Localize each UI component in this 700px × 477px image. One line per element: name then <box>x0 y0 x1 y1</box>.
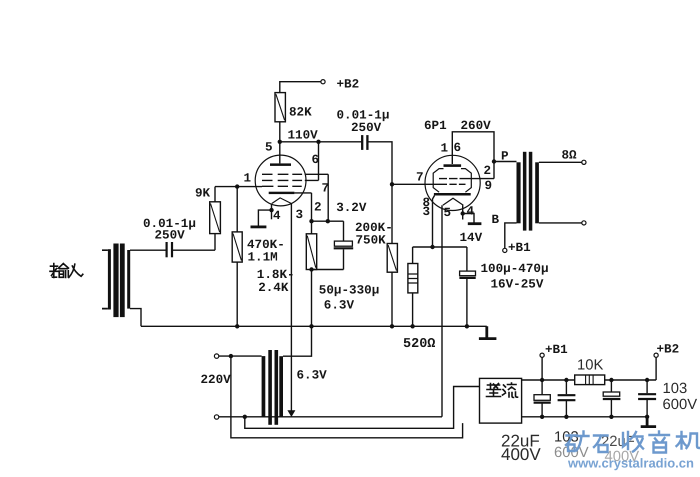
output transformer T2 <box>517 152 539 231</box>
resistor 520 ohm <box>408 247 418 326</box>
capacitor 22uF 400V first <box>534 380 551 417</box>
junction 1.8K bottom <box>309 267 313 271</box>
node dot mains top <box>229 354 233 358</box>
wire 220V top to primary <box>219 355 262 357</box>
wire secondary top to 8 ohm terminal <box>539 161 582 163</box>
svg-text:50μ-330μ: 50μ-330μ <box>319 283 379 297</box>
wire V2 cathode network <box>413 246 467 248</box>
tube V1 envelope <box>255 155 306 206</box>
svg-text:8Ω: 8Ω <box>562 149 578 163</box>
svg-text:5: 5 <box>444 206 452 220</box>
wire P to output transformer primary <box>494 161 517 163</box>
junction dots ground rail <box>540 415 649 419</box>
wire 110V node to coupling cap <box>280 141 362 143</box>
tube V2 anode plate <box>444 164 462 167</box>
wire pin 6 to 110V node <box>318 142 320 181</box>
wire cathode node to bypass cap <box>312 220 344 222</box>
tube V2 grid row 1 <box>439 178 494 180</box>
node dot pin7 junction <box>326 219 330 223</box>
node dot grid V1 <box>235 184 239 188</box>
wire cathode to pin3 line <box>294 192 311 194</box>
svg-text:+B1: +B1 <box>545 343 568 357</box>
pin 4 lead and ground V2 <box>461 205 482 224</box>
svg-text:5: 5 <box>265 141 273 155</box>
wire +B1 to rail <box>541 357 543 380</box>
rectifier box 整流 <box>480 378 522 423</box>
resistor 9K <box>210 187 221 251</box>
junction 100u cap to bus <box>465 324 469 328</box>
wire bus to 6.3V winding top <box>283 326 312 356</box>
wire secondary bottom <box>539 222 582 224</box>
tube V1 grid row 3 <box>262 185 302 187</box>
svg-text:103: 103 <box>554 430 579 446</box>
terminal 8 ohm bottom <box>582 221 586 225</box>
terminal +B2 top <box>321 80 325 84</box>
svg-text:3.2V: 3.2V <box>336 201 367 215</box>
capacitor 103 600V second <box>638 380 656 417</box>
svg-text:250V: 250V <box>351 121 382 135</box>
svg-text:400V: 400V <box>501 445 541 464</box>
heater lead V2 pin 5 down to 6.3V <box>441 205 443 417</box>
svg-text:10K: 10K <box>577 358 603 374</box>
cathode line V1 pins 2,3 <box>311 193 313 234</box>
svg-text:4: 4 <box>273 209 281 223</box>
svg-text:220V: 220V <box>201 373 232 387</box>
capacitor 22uF 400V second <box>603 380 621 417</box>
cathode lead V2 pins 8,3 <box>433 196 435 248</box>
junction 520 ohm to bus <box>410 324 414 328</box>
node dot cathode V2 <box>430 245 434 249</box>
resistor 470K-1.1M <box>232 187 242 327</box>
resistor 82K <box>275 93 285 164</box>
svg-text:6P1: 6P1 <box>424 119 447 133</box>
svg-text:600V: 600V <box>663 397 698 413</box>
wire input transformer secondary bottom to ground bus <box>130 309 141 327</box>
svg-text:16V-25V: 16V-25V <box>491 278 544 292</box>
svg-text:+B2: +B2 <box>337 78 360 92</box>
svg-text:6: 6 <box>454 141 462 155</box>
watermark logo 矿石收音机 <box>566 432 700 453</box>
node dot grid V2 <box>390 182 394 186</box>
power transformer T3 <box>262 350 283 425</box>
pin 4 lead and ground <box>251 203 274 227</box>
rectifier label 整流 <box>487 383 518 398</box>
ground symbol at bus right end <box>479 326 497 338</box>
terminal 8 ohm top <box>582 160 586 164</box>
terminal 220V bottom <box>214 415 218 419</box>
svg-text:100μ-470μ: 100μ-470μ <box>481 262 549 276</box>
wire +B2 to rail <box>655 357 657 380</box>
tube V2 cathode <box>434 193 471 196</box>
arrow junction at 6.3V winding bottom <box>288 411 295 417</box>
svg-text:7: 7 <box>416 171 424 185</box>
junction 470K to bus <box>235 324 239 328</box>
junction bus heater ground <box>309 324 313 328</box>
node dot pin6 junction <box>316 140 320 144</box>
svg-text:260V: 260V <box>461 119 492 133</box>
wire grid node V1 pin1 <box>215 186 262 188</box>
svg-text:520Ω: 520Ω <box>403 337 435 352</box>
tube V1 heater <box>272 198 291 204</box>
wire mains to rectifier bottom input <box>231 356 463 438</box>
svg-text:103: 103 <box>663 381 688 397</box>
junction dots B+ rail <box>540 378 649 382</box>
svg-text:1: 1 <box>244 172 252 186</box>
svg-text:1: 1 <box>441 142 449 156</box>
tube V1 grid row 1 <box>262 173 328 175</box>
wire +B2 to 82K <box>280 82 321 93</box>
svg-text:1.1M: 1.1M <box>248 250 278 264</box>
ground bus <box>141 325 487 327</box>
junction 200K to bus <box>390 324 394 328</box>
svg-text:250V: 250V <box>155 229 186 243</box>
tube V1 anode plate <box>270 163 291 166</box>
svg-text:6.3V: 6.3V <box>324 299 355 313</box>
tube V1 grid row 2 <box>262 179 319 181</box>
terminal +B1 mid <box>503 248 507 252</box>
tube V2 heater <box>443 198 464 205</box>
tube V2 grid row 2 <box>440 183 466 185</box>
resistor 10K <box>575 375 605 385</box>
ground symbol psu <box>641 417 656 427</box>
terminal +B2 psu <box>654 353 658 357</box>
ground rail psu <box>522 416 648 418</box>
wire grid node to V2 pin 7 <box>392 183 440 185</box>
svg-text:P: P <box>501 150 509 164</box>
svg-text:7: 7 <box>322 182 330 196</box>
capacitor 100u-470u 16V-25V <box>459 247 475 326</box>
svg-text:110V: 110V <box>288 129 319 143</box>
node dot 110V <box>278 140 282 144</box>
svg-text:2: 2 <box>484 164 492 178</box>
B+ rail <box>522 379 657 381</box>
wire input transformer secondary top to C1 <box>130 249 166 251</box>
svg-text:14V: 14V <box>460 231 483 245</box>
resistor 1.8K-2.4K <box>306 234 316 326</box>
svg-text:9: 9 <box>485 179 493 193</box>
tube V2 anode lead and 260V loop <box>452 132 494 179</box>
input label 输入 <box>50 264 83 278</box>
capacitor 103 600V first <box>558 380 576 417</box>
svg-text:B: B <box>492 213 500 227</box>
svg-text:3: 3 <box>423 205 431 219</box>
terminal 220V top <box>214 354 218 358</box>
capacitor C2 0.01-1u 250V coupling <box>362 135 367 150</box>
tube V1 cathode <box>269 192 295 194</box>
wire pin 7 down to cathode node <box>327 174 329 221</box>
svg-text:6.3V: 6.3V <box>297 369 328 383</box>
node dot mains bottom <box>243 415 247 419</box>
tube V2 beam plates <box>433 169 471 193</box>
wire 220V bottom to heater line <box>219 416 442 418</box>
svg-text:3: 3 <box>296 208 304 222</box>
resistor 200K-750K <box>387 244 397 327</box>
svg-text:2.4K: 2.4K <box>258 281 289 295</box>
tube V2 envelope 6P1 <box>425 155 480 210</box>
svg-text:9K: 9K <box>195 187 211 201</box>
svg-text:2: 2 <box>314 201 322 215</box>
node dot cathode V1 <box>309 219 313 223</box>
terminal +B1 psu <box>540 353 544 357</box>
svg-text:82K: 82K <box>289 106 312 120</box>
heater wire V1 down to 6.3V winding <box>290 203 292 411</box>
input transformer T1 <box>102 244 130 318</box>
wire mains to rectifier left input <box>245 387 480 429</box>
capacitor 50u-330u 6.3V <box>312 221 354 269</box>
svg-text:4: 4 <box>467 205 475 219</box>
svg-text:+B1: +B1 <box>508 241 531 255</box>
capacitor C1 0.01-1u 250V <box>167 242 172 257</box>
svg-text:www.crystalradio.cn: www.crystalradio.cn <box>567 456 694 471</box>
wire C2 to grid V2 node <box>369 142 393 244</box>
svg-text:750K: 750K <box>356 234 387 248</box>
node dot P plate junction <box>492 159 496 163</box>
wire C1 to 9K resistor bottom <box>173 249 215 251</box>
svg-text:6: 6 <box>312 153 320 167</box>
wire B primary bottom to +B1 <box>505 223 517 249</box>
svg-text:+B2: +B2 <box>657 343 680 357</box>
